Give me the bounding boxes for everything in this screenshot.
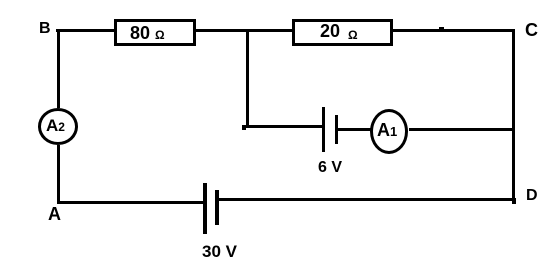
wire battery 30V to D — [219, 198, 515, 201]
ammeter A1 label — [377, 120, 397, 141]
wire right vertical C to D — [512, 29, 515, 201]
wire middle branch left segment — [242, 125, 322, 128]
junction nub at middle branch left end — [242, 125, 246, 130]
ammeter A2 label — [46, 116, 65, 136]
wire ammeter A2 to A — [57, 145, 60, 203]
wire top B to R1 — [56, 29, 115, 32]
node B — [39, 20, 51, 38]
battery 30V long plate — [203, 183, 207, 234]
tick mark on top wire — [439, 27, 444, 29]
node A — [48, 204, 61, 225]
wire bottom A to battery 30V — [57, 201, 203, 204]
junction nub at corner D — [512, 198, 516, 204]
resistor R1 value label 80 Ω — [130, 23, 165, 44]
ammeter A1 — [370, 109, 408, 154]
battery 30V value label — [202, 242, 237, 262]
wire R1 to R2 — [196, 29, 292, 32]
battery 6V long plate — [322, 107, 325, 152]
battery 30V short plate — [215, 190, 219, 225]
wire R2 to C — [393, 29, 515, 32]
resistor R2 20Ω box — [292, 19, 393, 46]
resistor R1 80Ω box — [114, 19, 196, 46]
battery 6V short plate — [335, 115, 338, 144]
wire ammeter A1 to right vertical — [409, 128, 513, 131]
wire junction vertical to middle branch — [246, 32, 249, 127]
resistor R2 value label 20 Ω — [320, 21, 358, 42]
wire left vertical B to ammeter A2 — [57, 32, 60, 108]
battery 6V value label — [318, 159, 342, 177]
ammeter A2 — [38, 108, 78, 145]
node D — [526, 187, 538, 205]
wire battery 6V to ammeter A1 — [338, 128, 371, 131]
node C — [525, 20, 538, 41]
